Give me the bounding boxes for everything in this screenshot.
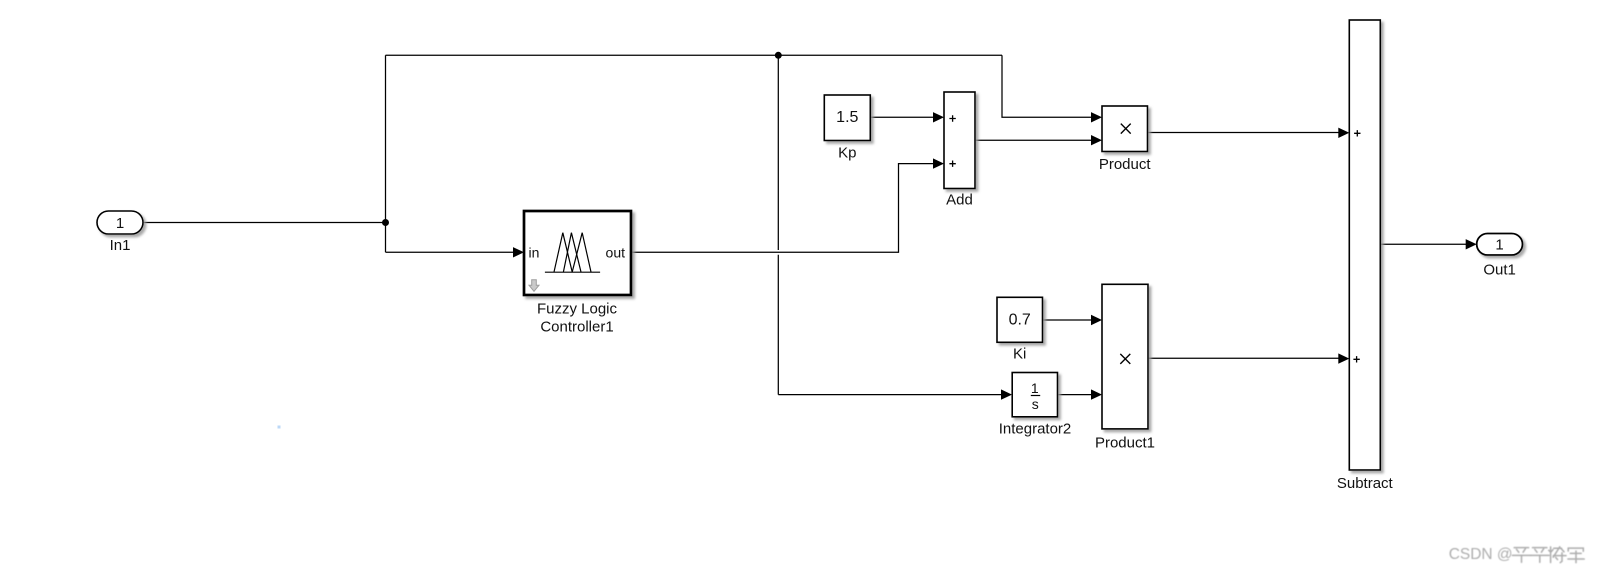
svg-text:0.7: 0.7 [1009, 311, 1031, 328]
svg-text:CSDN @: CSDN @ [1449, 546, 1513, 563]
svg-text:Fuzzy Logic: Fuzzy Logic [537, 301, 618, 318]
svg-text:s: s [1032, 396, 1039, 412]
svg-text:Product: Product [1099, 156, 1152, 173]
svg-text:In1: In1 [110, 237, 131, 254]
svg-text:Controller1: Controller1 [540, 319, 613, 336]
svg-text:in: in [529, 245, 540, 261]
svg-text:1: 1 [1031, 380, 1039, 396]
svg-text:Kp: Kp [838, 145, 856, 162]
svg-text:1: 1 [116, 215, 124, 232]
svg-text:Out1: Out1 [1483, 261, 1516, 278]
svg-text:1.5: 1.5 [836, 109, 858, 126]
svg-text:Integrator2: Integrator2 [999, 420, 1072, 437]
svg-text:1: 1 [1495, 237, 1503, 254]
svg-text:Ki: Ki [1013, 346, 1026, 363]
svg-text:Add: Add [946, 192, 973, 209]
svg-text:out: out [606, 245, 626, 261]
svg-text:Product1: Product1 [1095, 435, 1155, 452]
svg-text:Subtract: Subtract [1337, 475, 1394, 492]
